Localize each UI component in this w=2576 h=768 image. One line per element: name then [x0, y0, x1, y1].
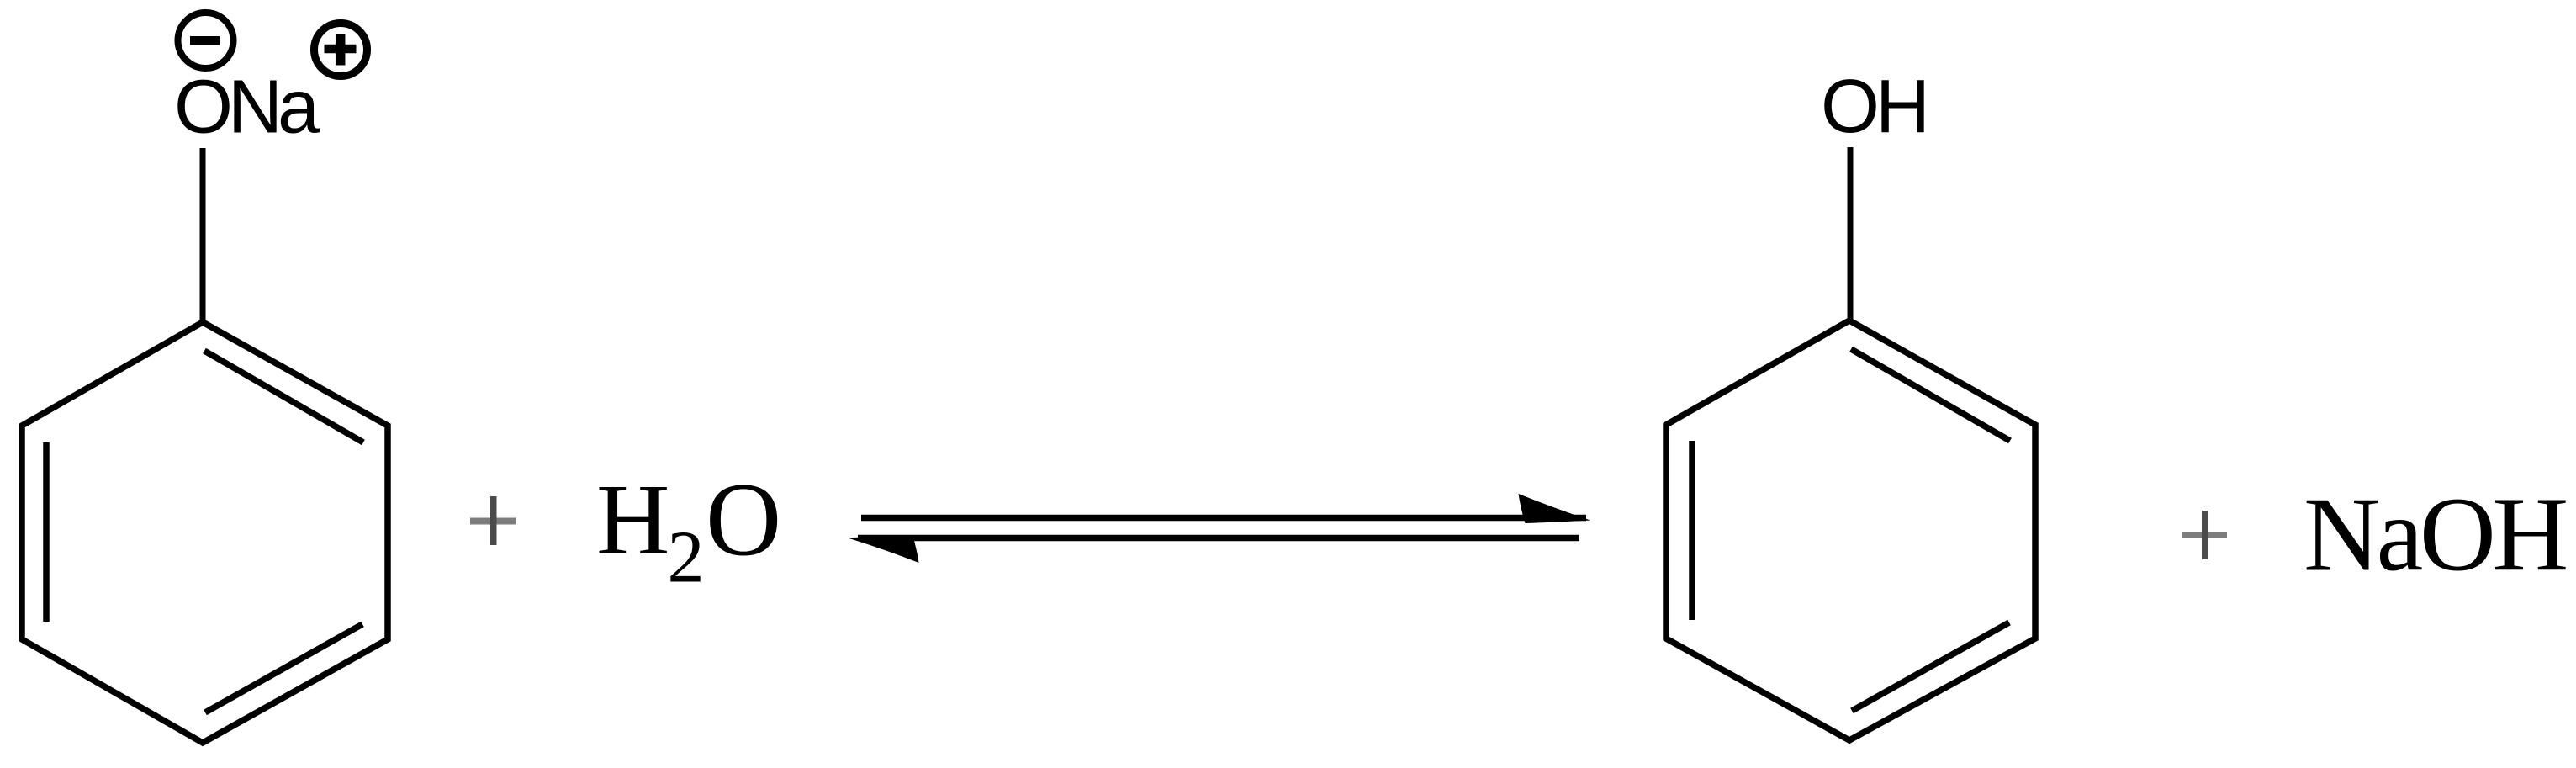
svg-text:O: O: [706, 463, 781, 579]
svg-text:ONa: ONa: [174, 66, 320, 150]
svg-text:OH: OH: [1821, 65, 1926, 149]
svg-text:2: 2: [668, 517, 705, 599]
svg-text:NaOH: NaOH: [2304, 477, 2566, 594]
svg-text:H: H: [596, 463, 669, 576]
